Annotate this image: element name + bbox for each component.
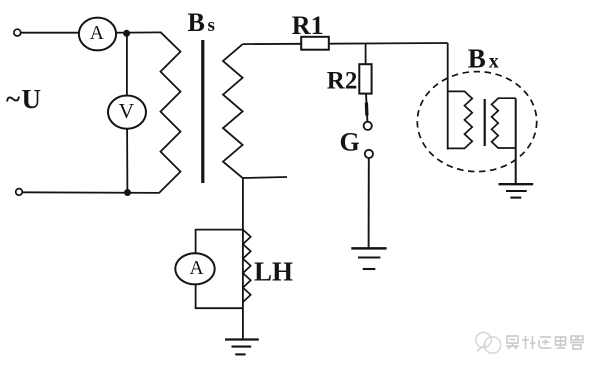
wire node R2 drop [365,44,367,64]
terminal J1 (top-left input) [14,29,21,36]
wire stub right of Bs secondary bottom [243,177,287,178]
terminal J2 (bottom-left input) [16,189,23,196]
svg-text:s: s [208,15,215,36]
watermark logo [476,332,501,353]
wire ammeter A2 bottom to LH bottom [196,284,243,308]
svg-text:A: A [189,258,203,279]
svg-text:G: G [340,128,360,157]
node A (junction dot) [123,30,130,37]
svg-text:A: A [90,23,104,44]
wire J2 along bottom to Bs primary [23,191,160,194]
ground (below spark gap) [351,248,386,269]
ammeter A2 [175,253,214,284]
transformer Bx secondary winding [492,98,516,148]
wire (thick scanned segment below R2) [365,103,369,116]
transformer Bs core [201,40,204,183]
svg-text:R2: R2 [327,68,358,95]
svg-text:LH: LH [254,257,293,287]
wire A1 to node A [116,31,162,33]
voltmeter V1 [108,96,146,129]
transformer Bx core [484,99,486,146]
svg-text:V: V [119,99,135,123]
node B (junction dot) [124,189,131,196]
wire Bs secondary bottom down through LH to ground [242,178,244,339]
wire LH top to ammeter A2 [196,230,243,254]
ground (below LH) [225,340,259,355]
wire node A down to voltmeter V1 [126,33,128,96]
ground (Bx) [499,184,534,197]
svg-text:~U: ~U [6,84,43,114]
wire R1 to top-right corner [329,42,448,45]
svg-text:R1: R1 [292,11,324,40]
wire R2 to spark gap [366,94,367,122]
wire Bs secondary top to R1 [243,43,302,45]
watermark text (stylized CJK brand glyphs) [506,336,584,349]
ammeter A1 [79,18,116,51]
spark gap upper electrode [364,122,372,130]
wire voltmeter V1 down to node B [126,129,128,193]
svg-text:B: B [188,8,205,37]
wire Bx secondary to ground [515,98,517,183]
spark gap lower electrode [365,150,373,158]
transformer Bs primary winding [159,32,181,193]
svg-text:B: B [468,44,486,74]
transformer Bx primary winding [448,91,472,148]
resistor R2 [359,64,371,93]
wire down right side into Bx [447,43,449,150]
wire J1 to ammeter A1 [21,32,79,34]
resistor R1 [301,37,329,50]
transformer Bx enclosure (dashed ellipse) [417,72,536,172]
svg-text:x: x [489,51,499,73]
inductor LH [243,230,251,303]
wire spark gap to ground [368,158,370,247]
transformer Bs secondary winding [223,44,243,178]
